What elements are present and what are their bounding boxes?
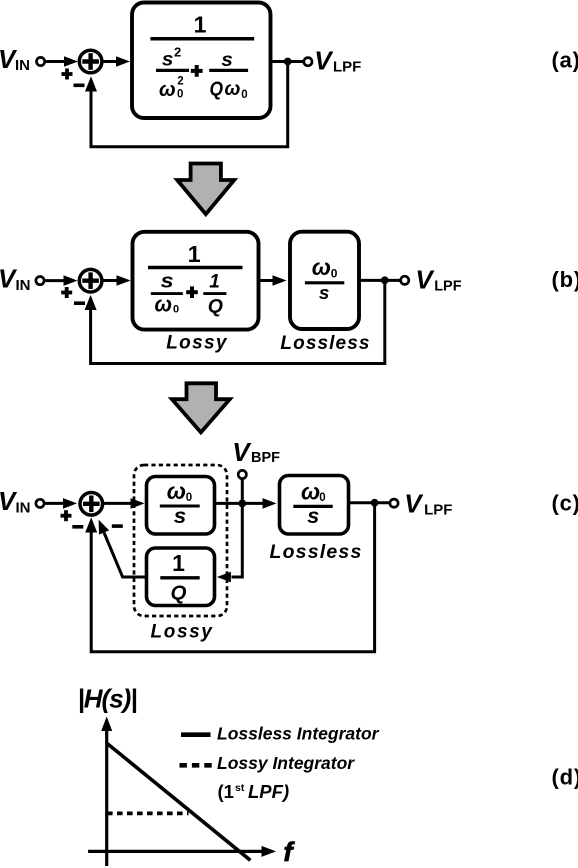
node VLPF (a) [314, 46, 361, 76]
wire summer to w0s block (c) [103, 498, 145, 509]
dashed response line [107, 812, 189, 816]
block 1/Q label (c) [160, 550, 199, 605]
svg-text:s: s [162, 50, 174, 71]
svg-text:ω: ω [225, 79, 241, 100]
y axis [101, 717, 112, 867]
plus sign label (b) [61, 287, 72, 298]
dashed lossy container (c) [134, 465, 227, 616]
wire VBPF stub (c) [241, 479, 244, 503]
legend label 1st LPF [218, 781, 290, 802]
svg-text:Lossy Integrator: Lossy Integrator [217, 753, 355, 773]
output terminal (a) [304, 58, 312, 66]
block lossy integrator (b) [133, 232, 259, 330]
svg-text:Lossy: Lossy [166, 333, 228, 354]
legend dashed sample [180, 763, 213, 768]
svg-text:IN: IN [16, 500, 31, 517]
svg-text:LPF: LPF [333, 59, 361, 76]
svg-text:ω: ω [155, 292, 173, 317]
svg-text:s: s [319, 282, 330, 303]
plus sign label (a) [62, 69, 73, 80]
svg-text:0: 0 [186, 492, 192, 504]
svg-text:(d): (d) [552, 765, 578, 790]
summing junction (a) [79, 50, 102, 73]
svg-text:0: 0 [331, 266, 338, 280]
svg-text:V: V [415, 264, 435, 294]
svg-text:V: V [232, 437, 252, 467]
junction dot output (c) [371, 499, 379, 507]
wire w0s to lossless (c) [215, 498, 277, 509]
big grey arrow 1 [177, 164, 234, 215]
svg-text:s: s [307, 504, 319, 528]
block lossless label w0/s (b) [305, 254, 344, 303]
svg-text:Lossless: Lossless [280, 333, 370, 354]
svg-text:ω: ω [301, 479, 320, 505]
svg-text:0: 0 [177, 89, 183, 101]
svg-text:f: f [284, 837, 296, 867]
block biquad label 1/(s2/w02+s/Qw0) (a) [150, 12, 254, 101]
svg-text:1: 1 [188, 241, 201, 267]
svg-text:2: 2 [174, 45, 181, 60]
svg-text:st: st [235, 782, 245, 794]
wire block to output (a) [271, 60, 304, 63]
wire input to summer (c) [45, 498, 77, 509]
svg-text:LPF: LPF [434, 279, 462, 295]
wire lossy to lossless (b) [259, 275, 287, 286]
feedback wire (c) [85, 503, 374, 652]
feedback wire (b) [85, 280, 385, 363]
block lossless label w0/s (c) [293, 479, 332, 529]
wire input to summer (b) [45, 275, 77, 286]
svg-text:BPF: BPF [251, 450, 280, 466]
x axis [88, 846, 276, 857]
wire summer to lossy block (b) [102, 275, 131, 286]
svg-text:(a): (a) [552, 48, 578, 73]
summing junction (c) [80, 493, 103, 516]
block lossless integrator (b) [290, 232, 359, 329]
svg-text:Q: Q [208, 296, 223, 318]
output terminal (c) [390, 499, 398, 507]
wire 1/Q output diagonal to summer (c) [99, 520, 147, 577]
svg-text:(c): (c) [552, 491, 578, 516]
minus sign label left (c) [72, 525, 83, 529]
svg-text:Lossy: Lossy [151, 622, 214, 643]
node VBPF label (c) [232, 437, 280, 467]
svg-text:0: 0 [241, 89, 247, 101]
wire lossless to output (c) [348, 501, 390, 504]
svg-text:Lossless: Lossless [269, 541, 362, 563]
plus sign label (c) [61, 510, 72, 521]
svg-text:V: V [314, 46, 334, 76]
svg-text:ω: ω [159, 79, 176, 101]
junction dot VBPF (c) [238, 500, 246, 508]
svg-text:0: 0 [173, 304, 179, 316]
svg-text:s: s [221, 50, 233, 71]
feedback wire (a) [85, 62, 288, 147]
input terminal (a) [37, 57, 45, 65]
block 1/Q (c) [147, 548, 215, 606]
svg-text:1: 1 [172, 550, 185, 576]
node VIN (c) [0, 486, 31, 517]
block biquad (a) [132, 3, 271, 119]
svg-text:IN: IN [16, 277, 31, 294]
minus sign label right (c) [112, 524, 123, 528]
svg-text:Q: Q [210, 78, 224, 101]
minus sign label (a) [74, 84, 85, 88]
output terminal (b) [401, 276, 409, 284]
svg-text:Q: Q [171, 582, 187, 605]
svg-text:V: V [404, 488, 424, 518]
svg-text:ω: ω [312, 254, 331, 280]
node VIN (b) [0, 264, 31, 295]
node VLPF (b) [415, 264, 461, 294]
svg-text:IN: IN [15, 57, 30, 74]
big grey arrow 2 [172, 383, 230, 432]
svg-text:ω: ω [167, 478, 186, 504]
input terminal (b) [36, 277, 44, 285]
solid response line [107, 743, 251, 860]
wire lossless to output (b) [359, 279, 401, 282]
svg-text:2: 2 [177, 76, 183, 88]
junction dot (a) [284, 58, 292, 66]
node VLPF (c) [404, 488, 452, 518]
node VIN (a) [0, 44, 30, 74]
svg-text:0: 0 [319, 492, 325, 504]
junction dot (b) [381, 276, 389, 284]
svg-text:Lossless Integrator: Lossless Integrator [217, 723, 380, 743]
svg-text:(1: (1 [218, 781, 234, 802]
terminal VBPF (c) [238, 470, 246, 478]
wire summer to block (a) [102, 56, 130, 67]
svg-text:LPF): LPF) [248, 781, 289, 802]
input terminal (c) [36, 499, 44, 507]
block w0/s lossy label (c) [160, 478, 200, 528]
svg-text:|H(s)|: |H(s)| [78, 684, 137, 714]
block lossless integrator (c) [280, 476, 349, 535]
svg-text:1: 1 [194, 12, 207, 38]
wire input to summer (a) [46, 56, 78, 67]
legend solid sample [181, 732, 211, 737]
svg-text:s: s [161, 270, 174, 292]
block w0/s lossy (c) [147, 477, 215, 535]
block lossy label 1/(s/w0+1/Q) (b) [148, 241, 243, 318]
svg-text:(b): (b) [552, 267, 578, 292]
svg-text:s: s [174, 504, 187, 528]
summing junction (b) [79, 269, 102, 292]
wire VBPF down to 1/Q (c) [217, 503, 242, 582]
svg-text:1: 1 [209, 271, 220, 292]
minus sign label (b) [74, 301, 85, 305]
svg-text:LPF: LPF [424, 502, 452, 519]
